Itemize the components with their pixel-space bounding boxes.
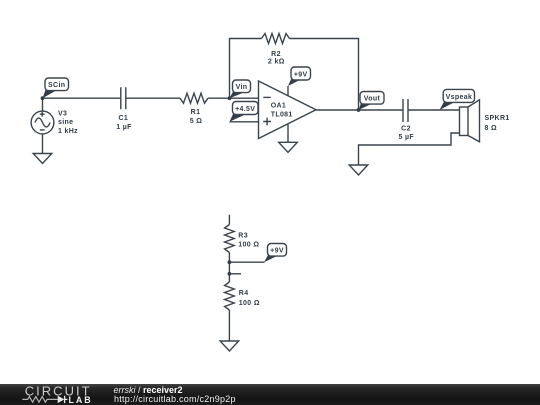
flag +9V at divider — [264, 244, 287, 263]
wire op-amp V+ pin stub — [287, 86, 289, 96]
svg-text:R4: R4 — [239, 290, 249, 297]
svg-text:100 Ω: 100 Ω — [238, 241, 259, 248]
svg-text:+9V: +9V — [294, 71, 308, 78]
svg-text:TL081: TL081 — [271, 111, 293, 118]
svg-text:8 Ω: 8 Ω — [485, 125, 498, 132]
capacitor C2 — [399, 99, 415, 141]
svg-text:100 Ω: 100 Ω — [239, 300, 260, 307]
node Vout junction — [357, 108, 361, 112]
flag Vout — [359, 92, 385, 111]
svg-text:2 kΩ: 2 kΩ — [268, 59, 285, 66]
svg-text:R2: R2 — [271, 51, 281, 58]
svg-text:Vout: Vout — [364, 96, 381, 103]
wire op-amp V- pin stub — [287, 124, 289, 142]
voltage source V3 — [31, 111, 78, 136]
wire R3 top lead — [228, 215, 230, 225]
ground below speaker return — [349, 165, 368, 175]
svg-text:http://circuitlab.com/c2n9p2p: http://circuitlab.com/c2n9p2p — [114, 394, 236, 404]
svg-text:sine: sine — [58, 119, 73, 126]
wire V3 top lead — [42, 98, 44, 111]
CircuitLab logo wordmark CIRCUIT — [25, 384, 92, 399]
flag +9V at op-amp supply — [288, 67, 311, 86]
wire main input from SCin node to op-amp minus input — [43, 97, 259, 99]
svg-text:Vin: Vin — [236, 84, 248, 91]
wire R3 to R4 through nodes — [228, 253, 230, 283]
CircuitLab logo LAB text — [69, 395, 93, 405]
svg-text:V3: V3 — [58, 111, 67, 118]
wire short stub right — [229, 273, 241, 275]
svg-text:OA1: OA1 — [271, 102, 286, 109]
node Vin junction — [228, 96, 232, 100]
node R3-R4 +9V junction — [228, 260, 232, 264]
wire V3 bottom lead — [42, 134, 44, 154]
resistor R3 — [225, 225, 260, 253]
svg-text:C2: C2 — [401, 126, 411, 133]
footer bar — [0, 384, 540, 405]
svg-text:LAB: LAB — [69, 395, 93, 405]
svg-text:+9V: +9V — [270, 248, 284, 255]
svg-text:1 kHz: 1 kHz — [58, 128, 78, 135]
node stub junction — [228, 272, 232, 276]
wire R4 bottom lead — [228, 310, 230, 341]
wire C2 to speaker — [408, 109, 460, 111]
svg-text:SPKR1: SPKR1 — [485, 115, 510, 122]
flag Vin — [230, 80, 251, 98]
wire feedback right vertical down to output — [290, 39, 359, 111]
wire feedback left vertical — [230, 39, 262, 99]
ground below op-amp — [279, 142, 298, 152]
resistor R4 — [225, 282, 260, 310]
wire output to C2 — [316, 109, 403, 111]
svg-text:R1: R1 — [191, 109, 201, 116]
svg-text:Vspeak: Vspeak — [446, 94, 473, 101]
CircuitLab logo resistor squiggle and diode — [22, 396, 67, 403]
capacitor C1 — [116, 87, 132, 131]
svg-text:C1: C1 — [118, 115, 128, 122]
wire speaker return to ground — [359, 133, 460, 165]
svg-text:SCin: SCin — [48, 82, 65, 89]
svg-text:1 µF: 1 µF — [116, 124, 132, 131]
speaker SPKR1 — [460, 100, 510, 142]
footer title errski / receiver2 — [114, 385, 183, 395]
ground below R4 — [220, 341, 239, 351]
svg-text:+4.5V: +4.5V — [235, 106, 255, 113]
footer url — [114, 394, 236, 404]
flag Vspeak — [440, 89, 475, 110]
flag SCin — [43, 78, 69, 98]
resistor R2 — [262, 34, 290, 66]
resistor R1 — [180, 93, 208, 125]
ground below V3 — [33, 154, 52, 164]
node SCin anchor junction — [41, 96, 45, 100]
svg-text:5 µF: 5 µF — [399, 134, 415, 141]
wire stub to +9V flag — [229, 261, 264, 263]
svg-text:5 Ω: 5 Ω — [190, 118, 203, 125]
flag +4.5V — [230, 102, 259, 122]
wire op-amp plus input — [230, 121, 259, 123]
op-amp U1 OA1 TL081 — [259, 81, 317, 139]
svg-text:R3: R3 — [238, 232, 248, 239]
